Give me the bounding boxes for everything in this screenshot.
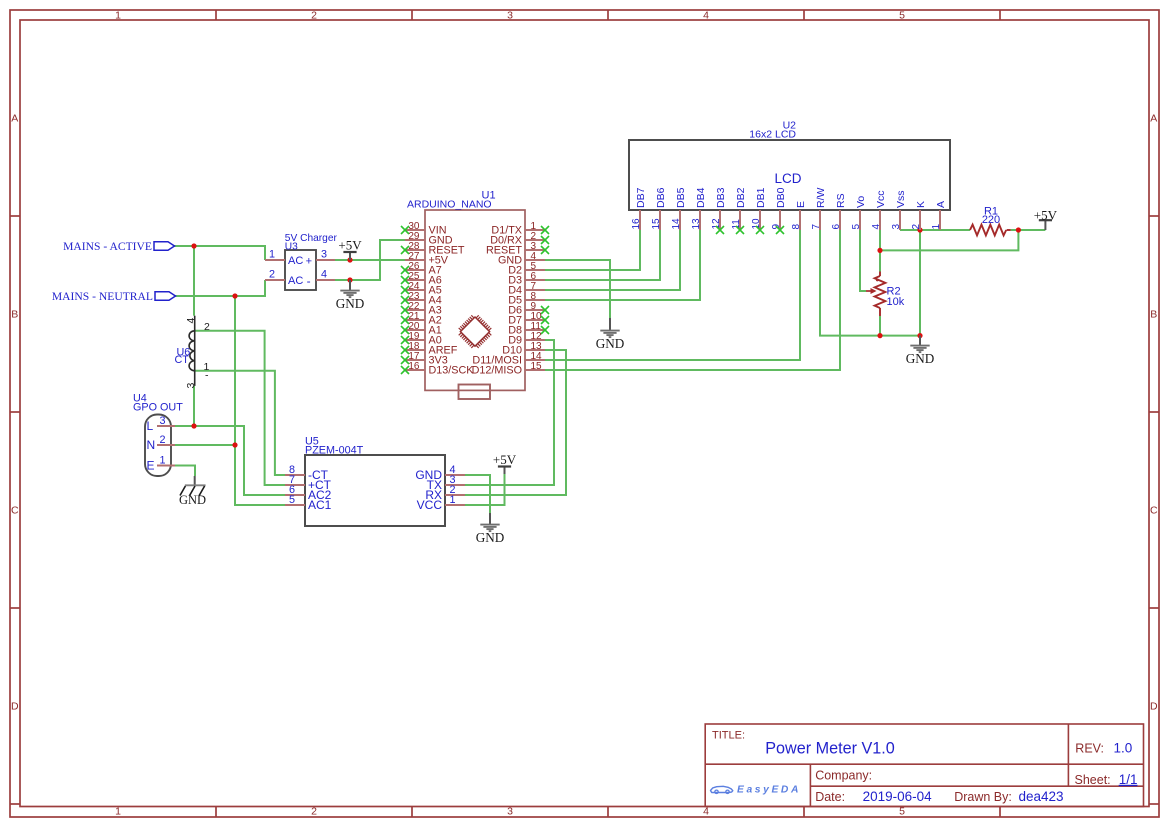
U5 pin 5 AC1 bbox=[285, 494, 332, 512]
wire U6 pin 2 to U5 +CT bbox=[195, 331, 285, 485]
svg-text:Sheet:: Sheet: bbox=[1075, 773, 1111, 787]
wire MAINS-NEUTRAL to U4 pin N / U5 AC1 bbox=[235, 296, 285, 505]
U2 pin 11 DB2 bbox=[731, 187, 747, 234]
svg-text:E: E bbox=[795, 201, 807, 208]
svg-text:-: - bbox=[205, 370, 209, 382]
U5 pin 2 RX bbox=[425, 484, 465, 502]
svg-text:VCC: VCC bbox=[417, 498, 443, 512]
svg-text:GND: GND bbox=[906, 351, 935, 366]
svg-text:1/1: 1/1 bbox=[1119, 772, 1138, 787]
ground GND (LCD K / R2) bbox=[906, 336, 935, 366]
wire U5 VCC to +5V bbox=[465, 474, 505, 505]
svg-text:C: C bbox=[1150, 505, 1158, 517]
U1 pin 24 A5 bbox=[401, 281, 442, 297]
U4 pin 2 N bbox=[147, 434, 176, 452]
wire U1 D9 to U5 TX bbox=[465, 340, 554, 485]
IC U1 ARDUINO_NANO body bbox=[407, 190, 525, 400]
node U4-L junction bbox=[191, 423, 196, 428]
transformer U6 CT bbox=[175, 316, 211, 389]
wire U2 Vcc to R2 top bbox=[879, 230, 881, 272]
node R2/ground junction bbox=[877, 333, 882, 338]
svg-text:1: 1 bbox=[931, 224, 942, 230]
svg-text:+: + bbox=[306, 256, 312, 268]
U2 pin 13 DB4 bbox=[691, 187, 707, 230]
net flag MAINS - NEUTRAL bbox=[52, 290, 176, 303]
svg-text:16: 16 bbox=[408, 361, 420, 372]
wire U1 D5 to U2 DB4 bbox=[545, 230, 700, 300]
svg-text:Company:: Company: bbox=[815, 769, 872, 783]
svg-text:DB1: DB1 bbox=[755, 187, 767, 208]
wire MAINS-ACTIVE to U6 pin 4 bbox=[193, 246, 195, 316]
U1 pin 25 A6 bbox=[401, 271, 442, 287]
wire R1 to +5V bbox=[1011, 229, 1046, 231]
U1 pin 26 A7 bbox=[401, 261, 442, 277]
svg-text:4: 4 bbox=[321, 269, 327, 281]
module U5 PZEM-004T body bbox=[305, 436, 445, 527]
node R1/+5V junction bbox=[1016, 227, 1021, 232]
net flag MAINS - ACTIVE bbox=[63, 240, 174, 253]
svg-text:D12/MISO: D12/MISO bbox=[472, 365, 522, 377]
U5 pin 4 GND bbox=[415, 464, 465, 482]
svg-text:U3: U3 bbox=[285, 242, 298, 253]
svg-text:3: 3 bbox=[159, 415, 165, 427]
node MAINS-ACTIVE junction bbox=[191, 243, 196, 248]
U2 pin 16 DB7 bbox=[631, 187, 647, 230]
node Vcc/R2 junction bbox=[877, 248, 882, 253]
U1 pin 23 A4 bbox=[401, 291, 442, 307]
U1 pin 10 D7 bbox=[508, 311, 549, 327]
U1 pin 16 D13/SCK bbox=[401, 361, 474, 377]
svg-text:A: A bbox=[935, 201, 947, 208]
wire U6 pin 3 to U4 pin L bbox=[193, 386, 195, 426]
svg-text:RS: RS bbox=[835, 193, 847, 208]
U1 pin 15 D12/MISO bbox=[472, 361, 545, 377]
wire U1 pin 4 GND to ground bbox=[545, 260, 610, 318]
svg-text:4: 4 bbox=[185, 318, 197, 324]
wire R2 bottom to ground rail bbox=[879, 316, 881, 336]
U1 pin 12 D9 bbox=[508, 331, 545, 347]
svg-text:TITLE:: TITLE: bbox=[712, 730, 745, 742]
wire U1 D11/MOSI to U2 E bbox=[545, 230, 800, 360]
wire U2 R/W to ground rail bbox=[820, 230, 920, 336]
U1 pin 20 A1 bbox=[401, 321, 442, 337]
node ground rail junction bbox=[917, 333, 922, 338]
svg-text:1: 1 bbox=[159, 454, 165, 466]
svg-text:6: 6 bbox=[831, 224, 842, 230]
wire MAINS-ACTIVE to U3 pin 1 bbox=[175, 246, 266, 260]
svg-text:Drawn By:: Drawn By: bbox=[954, 790, 1012, 804]
wire U6 pin 1 to U5 -CT bbox=[195, 371, 285, 475]
U2 pin 6 RS bbox=[831, 193, 847, 230]
U2 pin 14 DB5 bbox=[671, 187, 687, 230]
svg-text:DB2: DB2 bbox=[735, 187, 747, 208]
U3 pin 1 bbox=[265, 249, 285, 261]
svg-text:2: 2 bbox=[159, 434, 165, 446]
U2 pin 4 Vcc bbox=[871, 190, 887, 230]
U2 pin 9 DB0 bbox=[771, 187, 787, 234]
wire U2 K to ground bbox=[919, 230, 921, 336]
svg-text:D: D bbox=[11, 701, 19, 713]
wire U1 D4 to U2 DB5 bbox=[545, 230, 680, 290]
svg-text:LCD: LCD bbox=[774, 171, 801, 186]
node +5V junction bbox=[347, 257, 352, 262]
svg-text:GND: GND bbox=[336, 296, 365, 311]
svg-text:dea423: dea423 bbox=[1019, 789, 1064, 804]
+5V power symbol (U3 output) bbox=[338, 237, 362, 260]
svg-text:Vss: Vss bbox=[895, 190, 907, 208]
svg-text:DB3: DB3 bbox=[715, 187, 727, 208]
U3 pin 2 bbox=[265, 269, 285, 281]
resistor R1 220 bbox=[970, 205, 1011, 235]
svg-text:GPO OUT: GPO OUT bbox=[133, 402, 183, 414]
U1 pin 2 D0/RX bbox=[490, 231, 549, 247]
svg-text:4: 4 bbox=[703, 806, 709, 818]
svg-text:CT: CT bbox=[175, 354, 190, 366]
svg-text:DB7: DB7 bbox=[635, 187, 647, 208]
svg-text:4: 4 bbox=[703, 10, 709, 22]
svg-text:EasyEDA: EasyEDA bbox=[737, 784, 801, 795]
svg-text:5: 5 bbox=[851, 224, 862, 230]
wire U1 D2 to U2 DB7 bbox=[545, 230, 640, 270]
svg-text:8: 8 bbox=[791, 224, 802, 230]
svg-text:GND: GND bbox=[596, 336, 625, 351]
svg-text:13: 13 bbox=[691, 218, 702, 230]
U2 pin 15 DB6 bbox=[651, 187, 667, 230]
wire U1 D12/MISO to U2 RS bbox=[545, 230, 840, 370]
U1 pin 14 D11/MOSI bbox=[472, 351, 545, 367]
U2 pin 3 Vss bbox=[891, 190, 907, 230]
U3 pin 4 bbox=[316, 269, 335, 281]
wire MAINS-NEUTRAL to U3 pin 2 bbox=[176, 280, 266, 296]
U2 pin 1 A bbox=[931, 201, 947, 230]
U5 pin 1 VCC bbox=[417, 494, 465, 512]
svg-text:16x2 LCD: 16x2 LCD bbox=[749, 129, 796, 141]
svg-text:1: 1 bbox=[449, 494, 455, 506]
svg-text:2: 2 bbox=[911, 224, 922, 230]
wire U2 Vo to R2 wiper bbox=[860, 230, 866, 291]
U1 pin 28 RESET bbox=[401, 241, 465, 257]
svg-text:15: 15 bbox=[531, 361, 543, 372]
U2 pin 5 Vo bbox=[851, 196, 867, 230]
U4 pin 3 L bbox=[147, 415, 176, 433]
svg-text:+5V: +5V bbox=[493, 452, 517, 467]
svg-text:14: 14 bbox=[671, 218, 682, 230]
svg-text:Vo: Vo bbox=[855, 196, 867, 208]
svg-text:3: 3 bbox=[507, 806, 513, 818]
wire U2 Vss-K-A row to R1 bbox=[900, 229, 970, 231]
U2 pin 7 R/W bbox=[811, 188, 827, 231]
wire U5 GND to ground bbox=[465, 475, 490, 513]
ground GND (U3 minus) bbox=[336, 280, 365, 311]
U1 pin 6 D3 bbox=[508, 271, 545, 287]
svg-text:4: 4 bbox=[871, 224, 882, 230]
svg-text:5: 5 bbox=[899, 806, 905, 818]
U3 pin 3 bbox=[316, 249, 335, 261]
+5V power symbol (R1 / LCD A) bbox=[1034, 207, 1058, 230]
U1 pin 22 A3 bbox=[401, 301, 442, 317]
svg-text:ARDUINO_NANO: ARDUINO_NANO bbox=[407, 199, 492, 211]
svg-text:2: 2 bbox=[269, 269, 275, 281]
node GND junction bbox=[347, 277, 352, 282]
U2 pin 8 E bbox=[791, 201, 807, 230]
node U4-N junction bbox=[232, 442, 237, 447]
svg-text:E: E bbox=[147, 459, 155, 473]
potentiometer R2 10k bbox=[866, 272, 905, 317]
svg-text:Vcc: Vcc bbox=[875, 190, 887, 208]
svg-text:C: C bbox=[11, 505, 19, 517]
svg-text:2019-06-04: 2019-06-04 bbox=[863, 789, 933, 804]
svg-text:D: D bbox=[1150, 701, 1158, 713]
svg-text:+5V: +5V bbox=[1034, 207, 1058, 222]
node U2-K junction bbox=[917, 227, 922, 232]
U1 pin 19 A0 bbox=[401, 331, 442, 347]
U1 pin 18 AREF bbox=[401, 341, 458, 357]
svg-text:10k: 10k bbox=[887, 296, 905, 308]
svg-text:1: 1 bbox=[115, 10, 121, 22]
U1 pin 13 D10 bbox=[502, 341, 545, 357]
svg-text:220: 220 bbox=[982, 214, 1000, 226]
ground GND (arduino pin 4) bbox=[596, 318, 625, 351]
wire U3 pin 3 to +5V and U1 pin 27 bbox=[335, 259, 405, 261]
chassis ground (U4 pin E) bbox=[179, 476, 206, 507]
U1 pin 9 D6 bbox=[508, 301, 549, 317]
svg-text:7: 7 bbox=[811, 224, 822, 230]
svg-text:2: 2 bbox=[311, 806, 317, 818]
wire U4 pin N to neutral net bbox=[175, 444, 235, 446]
svg-text:GND: GND bbox=[476, 530, 505, 545]
svg-text:3: 3 bbox=[185, 383, 197, 389]
svg-text:DB5: DB5 bbox=[675, 187, 687, 208]
svg-text:2: 2 bbox=[204, 321, 210, 333]
svg-text:3: 3 bbox=[321, 249, 327, 261]
U1 pin 7 D4 bbox=[508, 281, 545, 297]
U1 pin 29 GND bbox=[405, 231, 453, 247]
svg-text:AC: AC bbox=[288, 275, 303, 287]
+5V power symbol (PZEM VCC) bbox=[493, 452, 517, 474]
U1 pin 30 VIN bbox=[401, 221, 447, 237]
svg-text:3: 3 bbox=[507, 10, 513, 22]
module U3 5V Charger body bbox=[285, 233, 338, 290]
U5 pin 3 TX bbox=[427, 474, 465, 492]
svg-text:MAINS - ACTIVE: MAINS - ACTIVE bbox=[63, 240, 152, 253]
svg-text:Date:: Date: bbox=[815, 790, 845, 804]
node MAINS-NEUTRAL junction bbox=[232, 293, 237, 298]
IC U2 16x2 LCD body bbox=[629, 120, 950, 210]
svg-text:GND: GND bbox=[179, 493, 206, 507]
svg-text:A: A bbox=[11, 113, 18, 125]
svg-text:A: A bbox=[1150, 113, 1157, 125]
svg-text:1: 1 bbox=[269, 249, 275, 261]
svg-text:2: 2 bbox=[311, 10, 317, 22]
svg-text:1.0: 1.0 bbox=[1114, 741, 1133, 756]
svg-text:AC1: AC1 bbox=[308, 498, 332, 512]
svg-text:R/W: R/W bbox=[815, 188, 827, 209]
svg-text:3: 3 bbox=[891, 224, 902, 230]
ground GND (PZEM) bbox=[476, 513, 505, 545]
wire U4 pin L to U5 AC2 bbox=[175, 426, 285, 495]
svg-text:DB4: DB4 bbox=[695, 187, 707, 208]
U5 pin 7 +CT bbox=[285, 474, 332, 492]
wire U4 pin E to chassis ground bbox=[175, 466, 195, 477]
svg-text:B: B bbox=[11, 309, 18, 321]
EasyEDA logo bbox=[711, 784, 802, 795]
svg-text:-: - bbox=[307, 274, 311, 288]
svg-text:5: 5 bbox=[289, 494, 295, 506]
svg-text:MAINS - NEUTRAL: MAINS - NEUTRAL bbox=[52, 290, 153, 303]
svg-text:11: 11 bbox=[731, 219, 742, 230]
svg-text:5: 5 bbox=[899, 10, 905, 22]
U2 pin 12 DB3 bbox=[711, 187, 727, 234]
svg-text:Power Meter V1.0: Power Meter V1.0 bbox=[765, 740, 895, 758]
svg-text:DB6: DB6 bbox=[655, 187, 667, 208]
U1 pin 8 D5 bbox=[508, 291, 545, 307]
wire U3 pin 4 to GND and U1 pin 29 bbox=[335, 240, 405, 280]
U2 pin 2 K bbox=[911, 201, 927, 230]
svg-text:15: 15 bbox=[651, 218, 662, 230]
U2 pin 10 DB1 bbox=[751, 187, 767, 234]
U1 pin 5 D2 bbox=[508, 261, 545, 277]
U1 pin 21 A2 bbox=[401, 311, 442, 327]
U1 pin 3 RESET bbox=[486, 241, 549, 257]
svg-text:REV:: REV: bbox=[1075, 742, 1104, 756]
svg-text:PZEM-004T: PZEM-004T bbox=[305, 444, 364, 456]
U5 pin 8 -CT bbox=[285, 464, 329, 482]
U1 pin 1 D1/TX bbox=[491, 221, 549, 237]
svg-text:B: B bbox=[1150, 309, 1157, 321]
svg-text:16: 16 bbox=[631, 218, 642, 230]
connector U4 GPO OUT body bbox=[133, 393, 183, 477]
svg-text:L: L bbox=[147, 419, 154, 433]
svg-text:DB0: DB0 bbox=[775, 187, 787, 208]
svg-text:+5V: +5V bbox=[338, 237, 362, 252]
wire U1 D10 to U5 RX bbox=[465, 350, 566, 495]
wire R1 node to U2 Vcc net bbox=[880, 230, 1018, 250]
svg-text:AC: AC bbox=[288, 255, 303, 267]
svg-text:1: 1 bbox=[115, 806, 121, 818]
svg-text:K: K bbox=[915, 201, 927, 208]
U1 pin 27 +5V bbox=[405, 251, 449, 267]
U1 pin 17 3V3 bbox=[401, 351, 448, 367]
svg-text:N: N bbox=[147, 438, 156, 452]
U4 pin 1 E bbox=[147, 454, 176, 472]
U5 pin 6 AC2 bbox=[285, 484, 332, 502]
title block bbox=[705, 724, 1143, 807]
svg-text:D13/SCK: D13/SCK bbox=[429, 365, 475, 377]
U1 pin 4 GND bbox=[498, 251, 545, 267]
U1 pin 11 D8 bbox=[508, 321, 549, 337]
wire U1 D3 to U2 DB6 bbox=[545, 230, 660, 280]
